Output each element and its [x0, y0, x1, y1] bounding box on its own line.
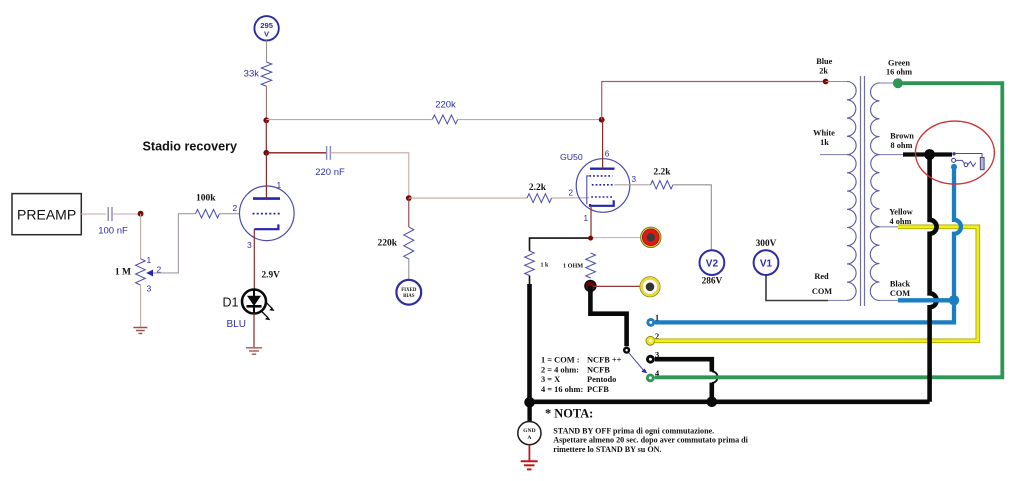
- wire (black down, jumps yellow+blue): [930, 155, 937, 402]
- svg-text:* NOTA:: * NOTA:: [545, 407, 593, 421]
- svg-text:3: 3: [632, 175, 637, 184]
- wire (brown tap): [880, 154, 904, 156]
- svg-text:300V: 300V: [756, 239, 777, 249]
- wire (triode anode): [265, 153, 267, 199]
- svg-text:220k: 220k: [377, 239, 397, 249]
- bus wire (thick black bottom): [529, 399, 930, 404]
- svg-text:V2: V2: [706, 259, 719, 270]
- node F: [588, 236, 593, 241]
- svg-text:4 ohm: 4 ohm: [890, 217, 912, 226]
- node D: [406, 195, 412, 201]
- svg-text:Red: Red: [814, 272, 829, 281]
- wire: [140, 214, 142, 259]
- wire (blue to COM junction): [655, 302, 954, 322]
- resistor 100k: [196, 210, 220, 218]
- svg-text:BIAS: BIAS: [403, 294, 415, 299]
- svg-text:V1: V1: [760, 259, 773, 270]
- voltmeter V1: [754, 250, 779, 275]
- svg-text:NCFB ++: NCFB ++: [587, 356, 622, 365]
- resistor 2.2k (screen): [651, 181, 673, 189]
- svg-text:rimettere lo STAND BY su ON.: rimettere lo STAND BY su ON.: [553, 445, 661, 454]
- svg-text:2: 2: [569, 189, 574, 198]
- wire: [602, 82, 826, 120]
- wire: [527, 402, 531, 421]
- svg-text:COM: COM: [812, 287, 832, 296]
- svg-text:1: 1: [277, 180, 282, 190]
- svg-text:2 = 4 ohm:: 2 = 4 ohm:: [541, 365, 579, 374]
- ground (LED): [246, 347, 262, 349]
- wire: [265, 120, 267, 153]
- wire (triode cathode): [253, 229, 255, 289]
- svg-text:1 OHM: 1 OHM: [563, 262, 583, 269]
- svg-text:FIXED: FIXED: [401, 288, 417, 293]
- wire (V1 to COM): [766, 275, 828, 301]
- wire (blue tap): [826, 81, 847, 83]
- resistor 220k: [432, 115, 458, 124]
- contact 4: [646, 374, 655, 383]
- wire (to red RCA): [591, 237, 642, 239]
- LED D1: [242, 290, 266, 314]
- wire (green tap): [880, 82, 894, 84]
- resistor 1 OHM: [586, 253, 596, 278]
- transformer secondary winding: [871, 83, 880, 155]
- svg-text:1 k: 1 k: [541, 263, 550, 269]
- wire (black from contact 3, jumps green): [655, 359, 712, 371]
- wire: [330, 153, 408, 198]
- wire: [529, 276, 531, 286]
- node E: [138, 211, 144, 217]
- voltage source 295V: [254, 16, 278, 40]
- svg-text:3: 3: [247, 240, 252, 250]
- node (blue tap): [823, 79, 829, 85]
- node J: [924, 149, 935, 160]
- svg-text:Yellow: Yellow: [889, 208, 913, 217]
- node (blue, jack): [951, 164, 957, 170]
- pentode GU50: [576, 159, 630, 213]
- svg-text:White: White: [813, 129, 835, 138]
- svg-text:Brown: Brown: [890, 132, 914, 141]
- svg-text:2: 2: [233, 203, 238, 213]
- node H: [707, 397, 718, 408]
- svg-text:1: 1: [147, 255, 152, 265]
- switch pole: [623, 347, 630, 354]
- wire (red COM tap): [828, 299, 847, 301]
- svg-text:220k: 220k: [435, 100, 456, 111]
- wire (thick black down): [527, 284, 532, 402]
- connector RCA red: [641, 227, 661, 247]
- ground terminal GND A: [518, 422, 541, 445]
- contact 1: [646, 318, 655, 327]
- wire (blue thick from COM tap): [898, 298, 951, 302]
- wire (GU50 screen to 2.2k): [614, 184, 650, 186]
- wire (blue down from jack, jumps yellow): [954, 167, 961, 300]
- svg-text:2.2k: 2.2k: [653, 168, 671, 178]
- resistor 220k (bias): [404, 227, 414, 259]
- wire: [408, 259, 410, 280]
- wire (white tap): [820, 154, 847, 156]
- wire: [220, 213, 240, 215]
- annotation red ellipse: [915, 121, 994, 184]
- capacitor 220nF: [326, 146, 328, 160]
- svg-text:16 ohm: 16 ohm: [886, 68, 912, 77]
- svg-text:3 = X: 3 = X: [541, 375, 560, 384]
- transformer primary winding: [847, 82, 856, 155]
- wire: [408, 198, 410, 227]
- svg-text:1 = COM :: 1 = COM :: [541, 356, 580, 365]
- voltmeter V2: [700, 250, 725, 275]
- node (green dot): [893, 78, 903, 88]
- svg-text:COM: COM: [890, 289, 910, 298]
- wire: [552, 197, 590, 199]
- node A: [263, 117, 269, 123]
- capacitor 100nF: [107, 207, 109, 221]
- svg-text:Pentodo: Pentodo: [587, 375, 616, 384]
- svg-text:286V: 286V: [702, 277, 723, 287]
- svg-text:100k: 100k: [196, 194, 216, 204]
- wire (thick black from brown tap): [903, 152, 952, 156]
- svg-text:1: 1: [584, 214, 589, 223]
- svg-text:Stadio recovery: Stadio recovery: [143, 140, 238, 154]
- wire: [265, 86, 267, 120]
- svg-text:2.9V: 2.9V: [262, 271, 281, 281]
- triode (recovery stage): [239, 186, 294, 241]
- wire (GU50 anode): [602, 120, 604, 169]
- svg-text:BLU: BLU: [227, 319, 246, 330]
- svg-text:PCFB: PCFB: [587, 385, 609, 394]
- svg-text:1k: 1k: [820, 138, 829, 147]
- wire: [140, 285, 142, 328]
- wire (GU50 cathode): [590, 206, 592, 238]
- wire (black COM tap): [880, 299, 899, 301]
- switch lever: [629, 353, 645, 372]
- svg-text:PREAMP: PREAMP: [17, 207, 76, 223]
- ground (main): [521, 460, 538, 462]
- svg-text:4 = 16 ohm:: 4 = 16 ohm:: [541, 385, 583, 394]
- svg-text:3: 3: [147, 284, 152, 294]
- PREAMP box: [12, 194, 81, 235]
- connector RCA yellow: [640, 277, 660, 297]
- svg-text:D1: D1: [223, 296, 239, 310]
- resistor 33k: [261, 62, 271, 86]
- svg-text:Aspettare almeno 20 sec. dopo: Aspettare almeno 20 sec. dopo aver commu…: [553, 436, 748, 445]
- node B: [599, 117, 605, 123]
- wire: [253, 313, 255, 348]
- wire: [266, 40, 268, 62]
- wiper arrow: [146, 270, 153, 277]
- svg-text:Green: Green: [888, 59, 910, 68]
- svg-text:8 ohm: 8 ohm: [891, 141, 913, 150]
- wire (yellow tap): [880, 226, 899, 228]
- ground (pot): [133, 327, 147, 329]
- resistor 1k: [525, 251, 535, 276]
- contact 2: [646, 336, 655, 345]
- svg-text:GU50: GU50: [560, 152, 583, 162]
- fixed bias source: [396, 280, 421, 305]
- svg-text:2.2k: 2.2k: [529, 183, 547, 193]
- svg-text:100 nF: 100 nF: [98, 226, 128, 237]
- svg-text:NCFB: NCFB: [587, 365, 610, 374]
- svg-text:33k: 33k: [244, 69, 260, 80]
- wire (thick black to switch pole): [590, 286, 626, 346]
- svg-text:1 M: 1 M: [115, 267, 131, 277]
- wire (yellow): [655, 227, 978, 341]
- svg-text:Blue: Blue: [816, 57, 832, 66]
- svg-text:Black: Black: [890, 280, 911, 289]
- contact 3: [646, 355, 655, 364]
- potentiometer 1M: [136, 259, 146, 285]
- svg-text:GND: GND: [523, 428, 535, 434]
- wire: [266, 119, 432, 121]
- svg-text:2k: 2k: [819, 67, 828, 76]
- node I: [524, 397, 535, 408]
- transformer core: [860, 76, 862, 306]
- wire: [528, 445, 530, 462]
- wire: [112, 213, 141, 215]
- jack switch symbol: [952, 152, 955, 155]
- wire: [458, 119, 602, 121]
- wire: [153, 214, 196, 273]
- node G (big): [585, 281, 596, 292]
- wire: [266, 152, 326, 154]
- LED arrows: [266, 302, 272, 308]
- node K (blue junction): [949, 295, 959, 305]
- wire (to yellow RCA): [590, 285, 640, 287]
- svg-text:STAND BY OFF prima di ogni com: STAND BY OFF prima di ogni commutazione.: [553, 426, 714, 435]
- wire (thin black to 1k): [530, 238, 591, 251]
- resistor 2.2k (grid): [527, 194, 552, 203]
- wire: [81, 213, 106, 215]
- svg-text:220 nF: 220 nF: [315, 167, 345, 178]
- node C: [263, 150, 269, 156]
- wire: [673, 185, 711, 250]
- wire (green loop to 16ohm tap): [655, 83, 1003, 377]
- svg-text:6: 6: [605, 150, 610, 159]
- wire: [409, 197, 527, 199]
- svg-text:A: A: [527, 435, 531, 441]
